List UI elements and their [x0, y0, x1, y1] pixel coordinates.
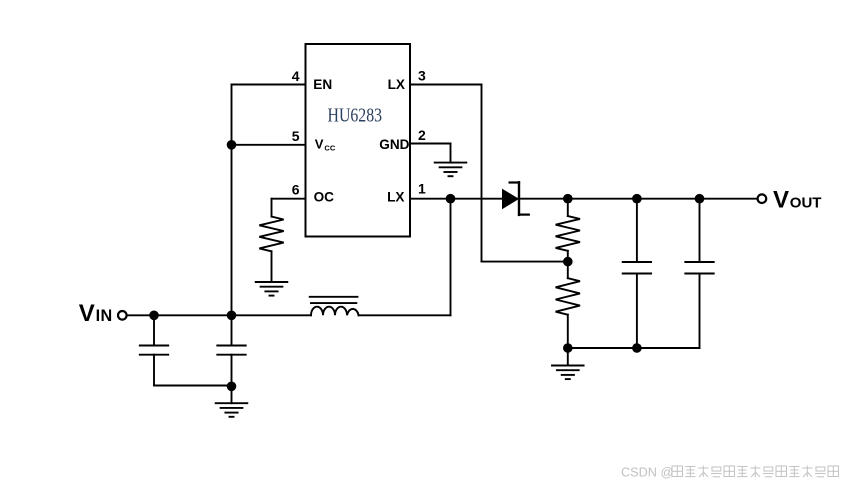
- node junction C2 bottom: [227, 382, 237, 392]
- pin number 4: [292, 68, 300, 84]
- wire VIN rail: [127, 314, 311, 316]
- node junction inductor riser on output rail: [446, 194, 456, 204]
- wire OC net (pin6): [272, 199, 306, 217]
- watermark CSDN text: [621, 466, 673, 480]
- node junction divider bottom: [563, 343, 573, 353]
- svg-text:OUT: OUT: [790, 194, 822, 211]
- node junction C3 top: [632, 194, 642, 204]
- wire left vertical bus (EN down to VIN rail): [231, 85, 233, 316]
- wire C2 bottom to ground: [231, 386, 233, 403]
- ground output: [552, 366, 584, 380]
- node junction C3 bottom: [632, 343, 642, 353]
- pin number 6: [292, 181, 300, 197]
- node junction C4 top: [695, 194, 705, 204]
- resistor R3 (OC pull-down): [259, 217, 283, 252]
- svg-text:6: 6: [292, 181, 300, 197]
- pin label VCC: [315, 137, 336, 153]
- svg-text:HU6283: HU6283: [328, 105, 383, 126]
- wire divider top stem: [567, 199, 569, 216]
- net label VIN: [79, 300, 113, 327]
- svg-text:5: 5: [292, 128, 300, 144]
- capacitor C3 (output): [623, 199, 651, 348]
- label U1 name HU6283: [328, 105, 383, 126]
- svg-text:V: V: [773, 186, 789, 213]
- capacitor C4 (output): [685, 199, 713, 348]
- resistor R1 (divider upper): [556, 216, 580, 251]
- wire VCC net (pin5 to bus): [232, 144, 306, 146]
- node junction divider top: [563, 194, 573, 204]
- svg-text:EN: EN: [313, 77, 332, 92]
- pin number 3: [418, 67, 426, 83]
- node junction feedback: [563, 257, 573, 267]
- wire R1 to FB node: [567, 251, 569, 262]
- pin number 2: [418, 127, 426, 143]
- svg-text:LX: LX: [387, 190, 404, 205]
- svg-text:CSDN @: CSDN @: [621, 466, 673, 480]
- wire FB node to R2: [567, 262, 569, 279]
- pin label OC: [314, 190, 335, 205]
- node junction VCC/bus: [227, 140, 237, 150]
- pin number 5: [292, 128, 300, 144]
- node junction C1 tap on VIN rail: [149, 311, 159, 321]
- svg-text:CC: CC: [324, 143, 335, 152]
- svg-text:4: 4: [292, 68, 300, 84]
- wire GND net (pin2): [410, 144, 451, 163]
- wire inductor to LX1 riser: [359, 199, 451, 316]
- terminal VOUT open circle: [758, 194, 767, 203]
- svg-text:GND: GND: [379, 137, 409, 152]
- pin label LX bottom: [387, 190, 404, 205]
- pin label GND: [379, 137, 409, 152]
- svg-text:1: 1: [418, 181, 426, 197]
- watermark company name glyphs: [672, 466, 839, 478]
- resistor R2 (divider lower): [556, 278, 580, 315]
- net label VOUT: [773, 186, 821, 213]
- wire divider to ground: [567, 348, 569, 366]
- svg-text:3: 3: [418, 67, 426, 83]
- pin number 1: [418, 181, 426, 197]
- wire EN net (pin4 to left bus): [232, 84, 306, 86]
- pin label LX top: [388, 77, 405, 92]
- wire output ground rail: [568, 347, 700, 349]
- svg-text:2: 2: [418, 127, 426, 143]
- diode D1 schottky: [502, 182, 529, 215]
- op-amp U1 HU6283 body: [306, 44, 411, 237]
- svg-text:V: V: [315, 137, 324, 152]
- pin label EN: [313, 77, 332, 92]
- svg-text:V: V: [79, 300, 95, 327]
- inductor L1: [310, 297, 359, 316]
- capacitor C2 (input, right): [217, 315, 245, 386]
- node junction bus/VIN rail: [227, 311, 237, 321]
- svg-text:IN: IN: [96, 307, 113, 325]
- svg-text:LX: LX: [388, 77, 405, 92]
- wire LX pin1 output rail: [410, 198, 758, 200]
- capacitor C1 (input, left): [140, 315, 168, 385]
- ground IC GND pin: [435, 163, 467, 177]
- ground input filter: [216, 403, 248, 417]
- wire R2 to bottom node: [567, 315, 569, 348]
- wire LX pin3 feedback net: [410, 85, 568, 262]
- ground OC: [256, 282, 288, 296]
- wire R3 to ground: [271, 251, 273, 282]
- svg-text:OC: OC: [314, 190, 335, 205]
- wire C1 bottom to C2 bottom: [154, 385, 232, 387]
- terminal VIN open circle: [118, 311, 127, 320]
